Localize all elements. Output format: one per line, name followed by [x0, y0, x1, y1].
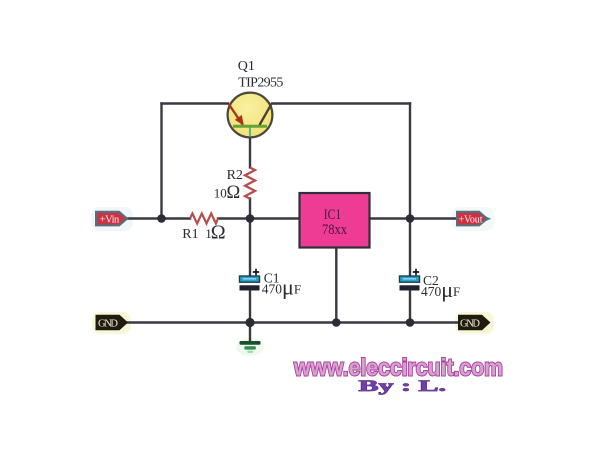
- svg-text:GND: GND: [98, 318, 118, 329]
- svg-text:TIP2955: TIP2955: [238, 75, 283, 90]
- svg-text:+Vin: +Vin: [100, 214, 120, 225]
- svg-text:GND: GND: [460, 318, 480, 329]
- svg-text:By : L.: By : L.: [359, 378, 447, 395]
- svg-text:+Vout: +Vout: [459, 214, 483, 225]
- svg-text:Ω: Ω: [227, 183, 241, 203]
- svg-text:R1: R1: [182, 227, 198, 242]
- svg-text:IC1: IC1: [324, 207, 342, 223]
- svg-text:Ω: Ω: [211, 221, 226, 243]
- svg-text:R2: R2: [227, 168, 243, 183]
- svg-text:78xx: 78xx: [322, 222, 347, 238]
- svg-text:10: 10: [214, 186, 227, 201]
- svg-text:Q1: Q1: [238, 59, 255, 74]
